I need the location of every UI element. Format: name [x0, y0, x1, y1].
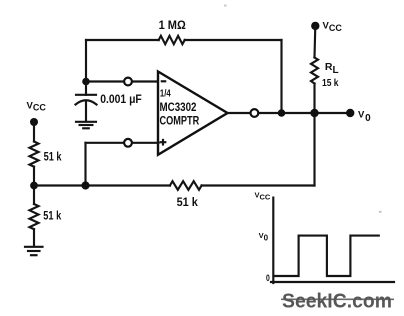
graph x axis: [271, 281, 394, 283]
graph y axis: [272, 198, 274, 283]
wire inverting input horizontal: [86, 80, 159, 82]
svg-text:0.001 μF: 0.001 μF: [100, 92, 142, 106]
pin label plus non-inverting input: [161, 140, 166, 145]
value label 51 k series: [177, 195, 199, 209]
part label COMPTR: [160, 116, 200, 128]
value label 51 k lower: [43, 211, 61, 223]
svg-text:51 k: 51 k: [43, 211, 61, 223]
wire vertical from output node down to bottom wire: [313, 113, 315, 186]
svg-text:15 k: 15 k: [322, 77, 339, 89]
node load junction on output wire: [310, 109, 318, 117]
pin label minus inverting input: [162, 80, 165, 82]
value label 1 Mohm: [159, 20, 186, 32]
resistor R series 51 k zigzag: [170, 181, 202, 190]
svg-text:0: 0: [266, 273, 270, 284]
power VCC terminal left: [27, 100, 47, 126]
node divider tap junction: [30, 182, 38, 190]
power VCC terminal top right: [311, 21, 342, 33]
wire from lower divider resistor to ground: [33, 229, 35, 246]
wire left vertical from top wire down to inverting node: [85, 40, 87, 82]
resistor R divider upper 51 k: [30, 142, 39, 167]
graph level label VO: [259, 231, 269, 242]
op-amp U1 1/4 MC3302 comparator triangle: [158, 72, 228, 155]
wire from top VCC to load resistor: [313, 26, 316, 58]
watermark SeekIC.com: [282, 290, 392, 313]
value label 51 k upper: [44, 151, 62, 163]
capacitor C 0.001 uF top plate lead: [85, 82, 87, 95]
svg-text:SeekIC.com: SeekIC.com: [282, 290, 392, 313]
wire bottom from divider tap to series resistor: [34, 184, 170, 186]
wire top feedback horizontal left segment: [86, 39, 159, 41]
waveform square wave VO: [274, 236, 379, 276]
watermark strikethrough line: [281, 298, 394, 300]
terminal open circle on op-amp output: [251, 109, 259, 117]
resistor R divider lower 51 k: [30, 204, 39, 229]
part label 1/4: [160, 89, 171, 100]
wire output from op-amp to VO terminal: [228, 112, 351, 114]
wire non-inverting input horizontal: [86, 142, 159, 144]
value label 0.001 uF: [100, 92, 142, 106]
ground symbol under capacitor: [76, 122, 96, 129]
wire between divider resistors: [33, 167, 35, 204]
wire from load resistor to output node: [313, 84, 315, 114]
terminal VO output: [346, 109, 371, 124]
graph axis label VCC: [255, 190, 271, 201]
graph zero label: [266, 273, 270, 284]
terminal open circle on non-inverting input: [124, 139, 132, 147]
terminal open circle on inverting input: [124, 78, 132, 86]
svg-text:COMPTR: COMPTR: [160, 116, 200, 128]
node inverting input junction: [82, 78, 90, 86]
wire top feedback horizontal right segment: [185, 39, 282, 41]
svg-text:VCC: VCC: [323, 21, 343, 33]
svg-text:51 k: 51 k: [44, 151, 62, 163]
resistor RL load 15 k zigzag: [311, 58, 318, 84]
capacitor bottom lead wire: [85, 102, 87, 122]
scan speck right middle: [379, 211, 382, 213]
svg-text:1/4: 1/4: [160, 89, 171, 100]
ground symbol left divider: [25, 247, 43, 255]
capacitor C 0.001 uF curved plate: [76, 100, 97, 104]
node non-inverting branch junction: [81, 181, 89, 189]
svg-text:MC3302: MC3302: [160, 102, 197, 114]
wire right vertical feedback down to output node: [280, 40, 282, 113]
wire bottom from series resistor to output branch corner: [202, 184, 315, 186]
wire from non-inverting input down to divider node: [84, 143, 86, 186]
reference label RL: [325, 61, 339, 76]
resistor R feedback 1 Mohm zigzag: [159, 36, 185, 44]
svg-text:51 k: 51 k: [177, 195, 199, 209]
node feedback junction on output wire: [278, 109, 286, 117]
capacitor C 0.001 uF straight plate: [76, 94, 96, 96]
scan speck top center: [224, 5, 227, 7]
part label MC3302: [160, 102, 197, 114]
wire from left VCC down to divider resistor: [33, 122, 35, 142]
svg-text:1 MΩ: 1 MΩ: [159, 20, 186, 32]
value label 15 k: [322, 77, 339, 89]
svg-text:VCC: VCC: [27, 100, 47, 112]
